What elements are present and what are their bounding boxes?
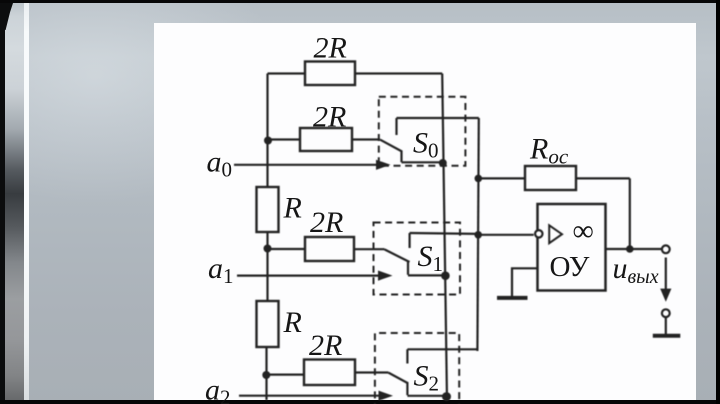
resistor 2R top — [305, 62, 355, 86]
op-amp inversion bubble — [535, 230, 542, 237]
wire output bus vertical — [442, 74, 447, 401]
wire top 2R left lead — [268, 72, 306, 74]
wire 2R row1 right lead — [354, 248, 385, 250]
svg-text:a0: a0 — [207, 146, 233, 182]
svg-text:uвых: uвых — [613, 252, 659, 288]
wire a1 control line — [237, 275, 381, 277]
resistor Roc — [525, 166, 576, 190]
op-amp U1 box — [538, 204, 606, 291]
arrowhead a0 — [376, 160, 391, 170]
wire 2R row2 left lead — [266, 374, 304, 376]
wire bus to op-amp inverting input — [478, 234, 534, 236]
arrowhead a2 — [379, 391, 394, 401]
wire S2 bottom contact to bus — [407, 395, 446, 397]
svg-text:2R: 2R — [309, 329, 342, 362]
wire S0 bottom contact to bus — [402, 161, 443, 163]
wire S0 top contact to summing bus — [397, 117, 479, 119]
switch S0 top contact stub — [395, 118, 397, 135]
svg-text:2R: 2R — [310, 206, 343, 239]
switch S0 bottom contact tick — [400, 151, 402, 163]
node ladder a1 — [264, 245, 272, 253]
wire S2 top contact to summing bus — [407, 348, 477, 350]
wire ladder vertical lower — [265, 347, 267, 400]
node Roc tap — [475, 175, 483, 183]
wire ladder vertical upper — [266, 74, 268, 188]
node S2 on bus — [442, 392, 451, 401]
wire terminal to ground — [665, 317, 667, 334]
arrow u_vyh down — [665, 258, 667, 290]
wire non-inverting input to ground — [512, 268, 538, 296]
wire a2 control line — [239, 395, 382, 397]
svg-text:S1: S1 — [418, 240, 444, 276]
svg-text:S0: S0 — [413, 127, 439, 163]
arrowhead u_vyh — [660, 289, 671, 302]
wire a0 control line — [234, 164, 380, 166]
resistor 2R row2 — [304, 360, 355, 386]
switch S1 blade — [385, 249, 410, 262]
ground bar op-amp — [497, 296, 528, 300]
wire ladder vertical middle — [266, 232, 268, 301]
svg-text:a2: a2 — [205, 374, 231, 404]
switch S2 blade — [388, 373, 407, 383]
svg-text:R: R — [283, 306, 302, 339]
wire top 2R right lead — [355, 72, 442, 74]
wire S1 bottom contact to bus — [408, 274, 445, 276]
wire Roc corner down to output — [629, 178, 631, 249]
svg-text:R: R — [283, 192, 302, 225]
svg-text:∞: ∞ — [573, 215, 594, 248]
svg-text:2R: 2R — [314, 32, 347, 65]
wire Roc to corner — [576, 177, 630, 179]
resistor R lower — [257, 301, 279, 347]
node S1 on bus — [441, 271, 450, 280]
resistor 2R row0 — [300, 128, 352, 151]
node S0 on bus — [439, 159, 447, 167]
node op-amp input — [474, 231, 482, 239]
output terminal circle — [662, 245, 670, 253]
wire S1 top contact to summing bus — [410, 232, 479, 235]
wire 2R row2 right lead — [355, 371, 388, 373]
node feedback junction — [626, 245, 634, 253]
wire 2R row1 left lead — [268, 248, 306, 250]
svg-text:2R: 2R — [313, 101, 346, 134]
node ladder a2 — [262, 371, 270, 379]
dashed box S1 — [374, 223, 461, 295]
op-amp triangle symbol — [549, 225, 562, 243]
resistor R upper — [257, 187, 279, 232]
svg-text:a1: a1 — [208, 252, 234, 288]
switch S2 top contact stub — [406, 349, 408, 363]
switch S2 bottom contact tick — [406, 382, 408, 395]
svg-text:ОУ: ОУ — [550, 251, 590, 283]
dashed box S0 — [379, 97, 466, 166]
arrowhead a1 — [378, 271, 393, 281]
ground terminal circle — [662, 309, 670, 317]
svg-text:Rос: Rос — [529, 133, 569, 169]
resistor 2R row1 — [305, 237, 354, 261]
switch S1 bottom contact tick — [407, 261, 409, 275]
switch S0 blade — [380, 140, 402, 152]
svg-text:S2: S2 — [414, 360, 440, 396]
wire 2R row0 right lead — [352, 138, 380, 140]
wire 2R row0 left lead — [268, 138, 300, 140]
node ladder a0 — [264, 137, 272, 145]
ground bar output — [653, 334, 681, 338]
wire bus to Roc — [478, 177, 525, 179]
switch S1 top contact stub — [409, 233, 411, 248]
dashed box S2 — [375, 333, 459, 404]
wire summing bus vertical — [477, 118, 478, 351]
wire op-amp output — [606, 248, 662, 250]
